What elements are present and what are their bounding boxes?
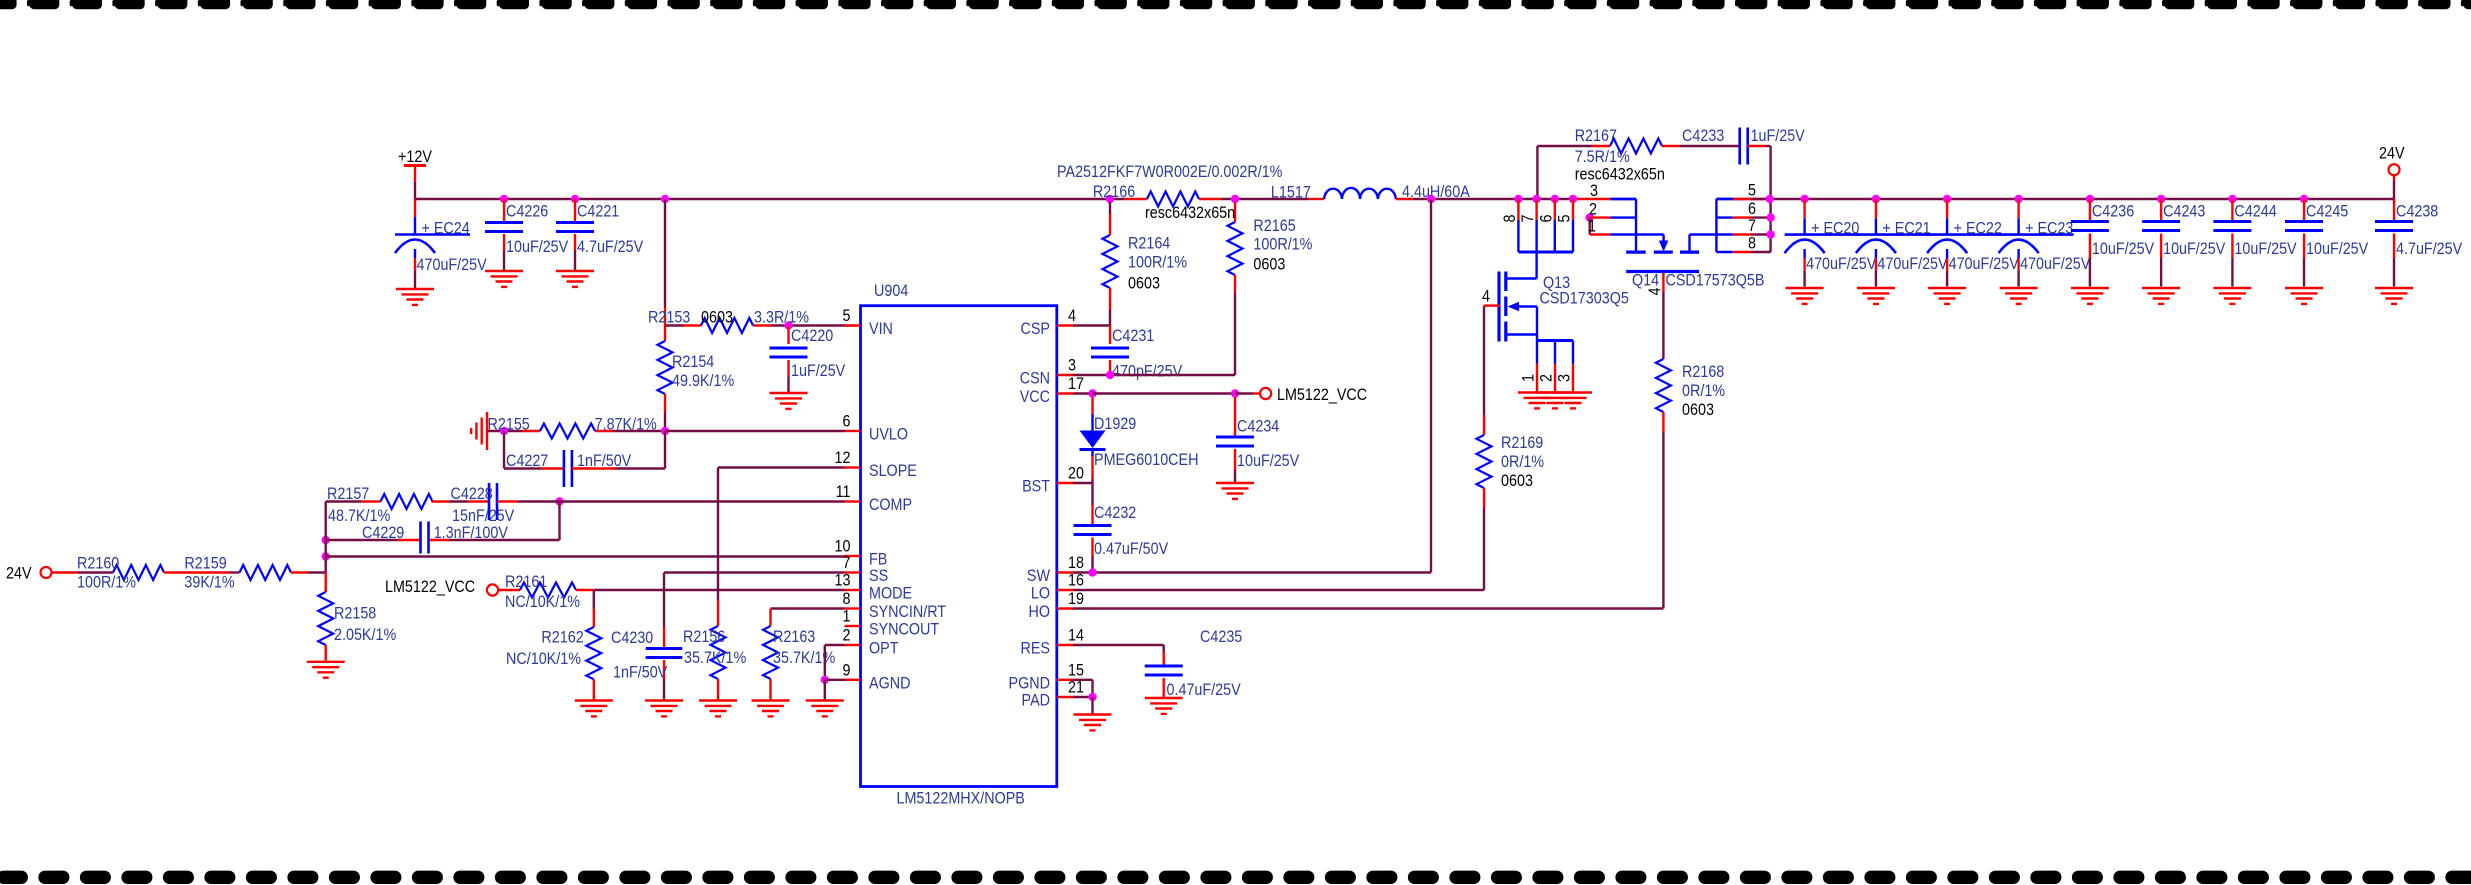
svg-text:48.7K/1%: 48.7K/1%	[328, 507, 390, 525]
svg-text:LM5122_VCC: LM5122_VCC	[385, 578, 475, 596]
svg-text:0603: 0603	[1501, 472, 1533, 490]
svg-text:R2154: R2154	[672, 353, 715, 371]
svg-text:11: 11	[836, 483, 851, 501]
svg-text:R2159: R2159	[184, 554, 226, 572]
svg-text:SS: SS	[869, 567, 888, 585]
svg-text:R2165: R2165	[1253, 217, 1296, 235]
svg-text:UVLO: UVLO	[869, 425, 908, 443]
svg-text:1uF/25V: 1uF/25V	[1751, 127, 1806, 145]
svg-text:470uF/25V: 470uF/25V	[417, 256, 488, 274]
svg-text:SYNCIN/RT: SYNCIN/RT	[869, 603, 946, 621]
svg-text:4: 4	[1482, 287, 1490, 305]
svg-text:0603: 0603	[701, 308, 733, 326]
svg-text:19: 19	[1068, 590, 1084, 608]
svg-text:0R/1%: 0R/1%	[1501, 453, 1544, 471]
svg-text:R2157: R2157	[327, 485, 369, 503]
svg-text:8: 8	[1501, 214, 1519, 222]
svg-text:1uF/25V: 1uF/25V	[791, 362, 846, 380]
svg-text:5: 5	[843, 307, 851, 325]
svg-text:10uF/25V: 10uF/25V	[2306, 240, 2369, 258]
svg-text:1nF/50V: 1nF/50V	[577, 452, 632, 470]
svg-text:7: 7	[1748, 217, 1756, 235]
svg-text:2: 2	[1537, 374, 1555, 382]
svg-text:0R/1%: 0R/1%	[1682, 382, 1725, 400]
svg-text:NC/10K/1%: NC/10K/1%	[505, 593, 580, 611]
svg-text:R2153: R2153	[648, 308, 691, 326]
svg-text:15nF/25V: 15nF/25V	[452, 507, 515, 525]
svg-text:SW: SW	[1027, 567, 1050, 585]
svg-text:VIN: VIN	[869, 320, 893, 338]
svg-text:R2156: R2156	[683, 628, 726, 646]
svg-text:R2168: R2168	[1682, 363, 1725, 381]
svg-text:20: 20	[1068, 464, 1084, 482]
svg-text:5: 5	[1748, 181, 1756, 199]
svg-text:R2162: R2162	[541, 628, 583, 646]
svg-text:+ EC24: + EC24	[422, 219, 470, 237]
svg-text:R2166: R2166	[1093, 183, 1136, 201]
svg-text:C4228: C4228	[451, 485, 494, 503]
svg-text:3: 3	[1590, 182, 1598, 200]
svg-text:10uF/25V: 10uF/25V	[506, 238, 569, 256]
svg-text:7.87K/1%: 7.87K/1%	[595, 415, 657, 433]
svg-text:7: 7	[1519, 215, 1537, 223]
svg-text:AGND: AGND	[869, 674, 910, 692]
svg-text:R2167: R2167	[1575, 127, 1617, 145]
svg-text:13: 13	[835, 571, 851, 589]
svg-text:1: 1	[1588, 217, 1596, 235]
svg-text:C4231: C4231	[1112, 327, 1154, 345]
svg-text:SLOPE: SLOPE	[869, 462, 917, 480]
svg-text:R2163: R2163	[773, 628, 816, 646]
svg-text:0603: 0603	[1682, 401, 1714, 419]
svg-text:BST: BST	[1022, 477, 1050, 495]
svg-text:R2164: R2164	[1128, 234, 1171, 252]
svg-text:U904: U904	[874, 282, 909, 300]
svg-text:8: 8	[1748, 234, 1756, 252]
svg-text:L1517: L1517	[1271, 183, 1311, 201]
svg-text:R2160: R2160	[77, 554, 120, 572]
svg-text:0.47uF/50V: 0.47uF/50V	[1094, 540, 1169, 558]
svg-text:C4229: C4229	[362, 524, 404, 542]
svg-text:Q14: Q14	[1632, 271, 1659, 289]
svg-text:1: 1	[1519, 374, 1537, 382]
svg-text:10uF/25V: 10uF/25V	[2163, 240, 2226, 258]
svg-text:R2155: R2155	[488, 415, 531, 433]
svg-text:C4244: C4244	[2234, 202, 2277, 220]
svg-text:2.05K/1%: 2.05K/1%	[334, 626, 396, 644]
svg-text:4.7uF/25V: 4.7uF/25V	[577, 238, 644, 256]
svg-text:4: 4	[1068, 307, 1076, 325]
svg-text:PGND: PGND	[1009, 674, 1050, 692]
svg-text:0603: 0603	[1128, 274, 1160, 292]
svg-text:C4243: C4243	[2163, 202, 2206, 220]
svg-text:16: 16	[1068, 571, 1084, 589]
svg-text:470uF/25V: 470uF/25V	[1949, 255, 2020, 273]
svg-text:4.4uH/60A: 4.4uH/60A	[1402, 183, 1470, 201]
svg-text:NC/10K/1%: NC/10K/1%	[506, 650, 581, 668]
svg-text:0.47uF/25V: 0.47uF/25V	[1167, 681, 1242, 699]
svg-text:4.7uF/25V: 4.7uF/25V	[2396, 240, 2463, 258]
svg-text:10uF/25V: 10uF/25V	[1237, 452, 1300, 470]
svg-text:SYNCOUT: SYNCOUT	[869, 620, 940, 638]
svg-text:2: 2	[1589, 200, 1597, 218]
svg-text:VCC: VCC	[1020, 388, 1050, 406]
svg-text:100R/1%: 100R/1%	[77, 573, 136, 591]
svg-text:C4226: C4226	[506, 202, 549, 220]
svg-text:C4227: C4227	[506, 452, 548, 470]
svg-text:21: 21	[1068, 678, 1084, 696]
svg-text:100R/1%: 100R/1%	[1128, 253, 1187, 271]
svg-text:1: 1	[843, 607, 851, 625]
svg-text:+ EC21: + EC21	[1882, 219, 1930, 237]
svg-text:2: 2	[843, 626, 851, 644]
svg-text:12: 12	[835, 449, 851, 467]
svg-text:35.7K/1%: 35.7K/1%	[684, 649, 746, 667]
svg-text:C4234: C4234	[1237, 417, 1280, 435]
svg-text:CSP: CSP	[1020, 320, 1050, 338]
svg-text:100R/1%: 100R/1%	[1253, 235, 1312, 253]
svg-text:CSN: CSN	[1020, 369, 1050, 387]
svg-text:18: 18	[1068, 554, 1084, 572]
svg-text:PA2512FKF7W0R002E/0.002R/1%: PA2512FKF7W0R002E/0.002R/1%	[1057, 163, 1282, 181]
svg-text:6: 6	[1748, 200, 1756, 218]
svg-text:14: 14	[1068, 626, 1084, 644]
svg-text:C4230: C4230	[611, 629, 654, 647]
svg-text:LM5122MHX/NOPB: LM5122MHX/NOPB	[897, 789, 1025, 807]
svg-text:+ EC23: + EC23	[2025, 219, 2073, 237]
svg-text:0603: 0603	[1253, 255, 1285, 273]
svg-text:resc6432x65n: resc6432x65n	[1145, 204, 1235, 222]
svg-text:1.3nF/100V: 1.3nF/100V	[434, 524, 509, 542]
svg-text:15: 15	[1068, 661, 1084, 679]
svg-text:D1929: D1929	[1094, 415, 1136, 433]
svg-text:8: 8	[843, 590, 851, 608]
svg-text:9: 9	[843, 661, 851, 679]
svg-text:HO: HO	[1028, 603, 1050, 621]
svg-text:10uF/25V: 10uF/25V	[2234, 240, 2297, 258]
svg-text:3: 3	[1068, 356, 1076, 374]
svg-text:OPT: OPT	[869, 639, 899, 657]
svg-text:PAD: PAD	[1022, 691, 1050, 709]
svg-text:24V: 24V	[2379, 144, 2405, 162]
svg-text:6: 6	[843, 412, 851, 430]
svg-text:+ EC20: + EC20	[1811, 219, 1859, 237]
svg-text:5: 5	[1555, 214, 1573, 222]
svg-text:+ EC22: + EC22	[1954, 219, 2002, 237]
svg-text:C4233: C4233	[1682, 127, 1725, 145]
svg-text:C4221: C4221	[577, 202, 619, 220]
svg-text:C4220: C4220	[791, 327, 834, 345]
svg-text:CSD17303Q5: CSD17303Q5	[1540, 290, 1630, 308]
svg-text:RES: RES	[1020, 639, 1050, 657]
svg-text:LO: LO	[1031, 584, 1050, 602]
svg-text:CSD17573Q5B: CSD17573Q5B	[1666, 271, 1765, 289]
svg-text:C4236: C4236	[2092, 202, 2135, 220]
svg-text:3: 3	[1555, 374, 1573, 382]
svg-text:MODE: MODE	[869, 584, 912, 602]
svg-text:49.9K/1%: 49.9K/1%	[672, 372, 734, 390]
svg-text:39K/1%: 39K/1%	[184, 573, 234, 591]
svg-text:17: 17	[1068, 375, 1084, 393]
svg-text:C4245: C4245	[2306, 202, 2349, 220]
svg-text:10uF/25V: 10uF/25V	[2092, 240, 2155, 258]
svg-text:7.5R/1%: 7.5R/1%	[1575, 148, 1630, 166]
svg-text:24V: 24V	[6, 564, 32, 582]
svg-text:470uF/25V: 470uF/25V	[2020, 255, 2091, 273]
svg-text:1nF/50V: 1nF/50V	[613, 663, 668, 681]
svg-text:+12V: +12V	[398, 148, 432, 166]
svg-text:C4238: C4238	[2396, 202, 2439, 220]
svg-text:R2158: R2158	[334, 604, 377, 622]
svg-text:6: 6	[1537, 214, 1555, 222]
svg-text:LM5122_VCC: LM5122_VCC	[1277, 386, 1367, 404]
svg-text:C4232: C4232	[1094, 504, 1136, 522]
svg-text:PMEG6010CEH: PMEG6010CEH	[1094, 451, 1198, 469]
svg-text:COMP: COMP	[869, 496, 912, 514]
svg-text:R2161: R2161	[505, 573, 547, 591]
svg-text:470uF/25V: 470uF/25V	[1877, 255, 1948, 273]
svg-text:R2169: R2169	[1501, 434, 1543, 452]
svg-text:3.3R/1%: 3.3R/1%	[754, 308, 809, 326]
svg-text:resc6432x65n: resc6432x65n	[1575, 166, 1665, 184]
svg-text:470pF/25V: 470pF/25V	[1112, 362, 1183, 380]
svg-text:C4235: C4235	[1200, 628, 1243, 646]
svg-text:470uF/25V: 470uF/25V	[1806, 255, 1877, 273]
